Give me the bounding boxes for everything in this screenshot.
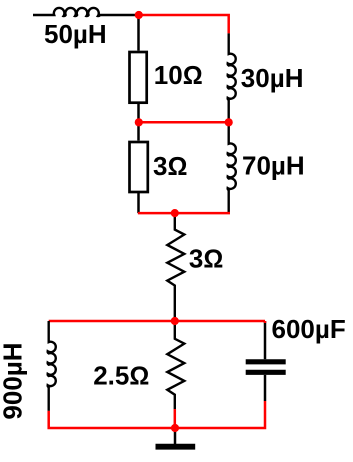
node A junction dot xyxy=(135,11,143,19)
inductor 70uH (vertical coil, right branch row2) xyxy=(228,122,236,213)
inductor 900uH (vertical coil, bottom left) with black leads xyxy=(48,321,56,411)
node C junction dot xyxy=(225,118,233,126)
inductor 30uH (vertical coil, right branch) xyxy=(228,33,236,122)
svg-text:70µH: 70µH xyxy=(242,151,305,181)
wire red bottom-right segment xyxy=(175,401,265,428)
wire black from node A down to R 10ohm xyxy=(137,15,140,51)
capacitor bottom lead black then red xyxy=(264,375,267,401)
wire red rail row3 xyxy=(138,212,230,215)
wire red rail row4 (top of bottom loop) xyxy=(49,320,265,323)
wire black from node B down to R 3ohm xyxy=(137,122,140,140)
node B junction dot xyxy=(135,118,143,126)
svg-text:3Ω: 3Ω xyxy=(153,151,187,181)
svg-text:2.5Ω: 2.5Ω xyxy=(93,361,149,391)
wire red stub above bottom node xyxy=(174,409,177,428)
capacitor 600uF vertical branch: top lead xyxy=(264,321,267,359)
wire black from R 3ohm to bottom-left corner of loop2 xyxy=(137,192,140,213)
svg-text:50µH: 50µH xyxy=(44,19,107,49)
svg-text:900µH: 900µH xyxy=(0,342,27,419)
wire red top stub at cap corner xyxy=(264,321,267,323)
wire black from R 10ohm down to node B xyxy=(137,103,140,123)
resistor 2.5ohm (zigzag, bottom middle) xyxy=(167,321,184,409)
node E junction dot xyxy=(171,317,179,325)
resistor 3ohm (rectangle body, second row) xyxy=(130,142,148,192)
wire red bottom-left segment xyxy=(49,411,175,428)
resistor 10ohm (rectangle body) xyxy=(130,52,147,103)
ground (stub + bar) xyxy=(156,428,196,447)
node F junction dot (bottom) xyxy=(171,424,179,432)
wire red rail row2 between node B and node C xyxy=(139,121,229,124)
node D junction dot xyxy=(171,209,179,217)
svg-text:10Ω: 10Ω xyxy=(154,60,203,90)
inductor 50uH (horizontal coil, top left) xyxy=(33,8,138,16)
svg-text:30µH: 30µH xyxy=(241,63,304,93)
wire red rail row1 from node A to top-right corner and down xyxy=(138,15,229,33)
resistor 3ohm series (zigzag) with leads xyxy=(167,213,184,318)
svg-text:600µF: 600µF xyxy=(272,314,346,344)
capacitor 600uF plates xyxy=(246,362,286,373)
svg-text:3Ω: 3Ω xyxy=(189,244,223,274)
